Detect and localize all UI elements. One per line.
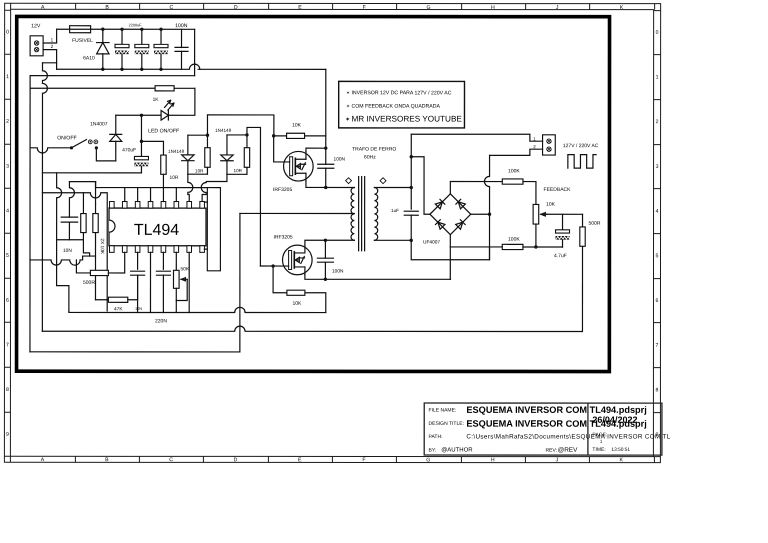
wire right loop of chip [207,188,220,271]
wire bridge top to 100K line [450,182,502,194]
svg-text:500R: 500R [83,280,95,286]
svg-text:10R: 10R [234,168,243,173]
svg-text:5: 5 [6,253,9,259]
svg-text:50K: 50K [180,266,189,272]
svg-text:K: K [620,5,624,11]
svg-text:8: 8 [6,387,9,393]
svg-text:0: 0 [656,30,659,36]
resistor R4 10R (pair 2) [234,135,250,174]
svg-text:A: A [41,5,45,11]
schematic border [17,16,610,371]
capacitor C2 2200uF [135,28,149,71]
wire pin7 drop [188,252,190,312]
svg-text:47K: 47K [114,306,123,312]
diode D3 1N4007 [90,115,122,161]
svg-text:@AUTHOR: @AUTHOR [441,448,473,454]
svg-text:DESIGN TITLE:: DESIGN TITLE: [429,421,464,427]
svg-text:F: F [363,5,366,11]
svg-text:IRF3205: IRF3205 [273,187,292,193]
wire 1K rail [30,87,195,89]
svg-text:3: 3 [6,164,9,170]
resistor R13 100K (bottom) [502,237,523,250]
op-amp U1 TL494 [109,208,206,246]
svg-text:60Hz: 60Hz [364,154,376,160]
wire pin12 riser [162,188,164,202]
wire branch to bridge left [411,157,430,215]
wire pin14 riser [137,188,139,202]
svg-text:B: B [105,5,109,11]
svg-text:C: C [169,5,173,11]
LED D2 LED ON/OFF [148,100,179,134]
wire Q1 drain link [306,146,328,151]
connector J1 12V [30,23,54,56]
wire feedback bottom line [450,245,562,248]
fuse FUSIVEL 6A10 [70,26,95,62]
wire pin15 riser [124,188,126,202]
page ruler frame [4,3,660,462]
svg-text:D: D [234,457,238,463]
svg-text:26/04/2022: 26/04/2022 [592,415,637,425]
svg-text:B: B [105,457,109,463]
wire center tap [240,212,354,214]
info box [339,81,465,128]
wire output pin1 line [411,134,542,141]
wire LED rail [116,114,161,117]
wire AC rail (output neutral) with hop [484,155,491,259]
svg-text:10K: 10K [292,301,302,307]
wire bottom rail with hop to MOSFET rail [57,64,326,69]
svg-text:100K: 100K [508,168,520,174]
wire output pin2 line [490,149,543,155]
svg-text:E: E [298,5,302,11]
diode D1 6A10 [97,28,109,71]
svg-text:G: G [426,457,430,463]
svg-text:H: H [491,457,495,463]
resistor R3 10R (pair 1) [195,135,210,174]
title block [424,403,662,455]
svg-text:K: K [620,457,624,463]
svg-text:1N4148: 1N4148 [215,128,232,133]
svg-text:C:\Users\MahRafaS2\Documents\E: C:\Users\MahRafaS2\Documents\ESQUEMA INV… [466,433,670,440]
wire pair1 bottom to pin10 with hop [188,174,193,201]
wire pin bus below chip [69,307,326,312]
wire comb bus feeder [95,182,97,188]
svg-text:3: 3 [656,164,659,170]
svg-text:1uF: 1uF [391,208,399,213]
svg-text:1N4148: 1N4148 [168,149,185,154]
svg-text:100N: 100N [334,156,346,162]
resistor R9 10K (Q1 gate) [274,122,326,138]
resistor R2 10R (LED) [161,155,179,188]
svg-text:1: 1 [6,74,9,80]
resistor R5 10K (a) [81,193,86,240]
wire left network top rail [69,181,95,183]
svg-text:1: 1 [656,74,659,80]
svg-text:PATH:: PATH: [429,434,443,440]
wire pair2 bottom link [227,173,247,175]
svg-text:7: 7 [656,343,659,349]
svg-text:✶: ✶ [346,104,350,109]
svg-text:6: 6 [656,298,659,304]
transformer TR1 TRAFO DE FERRO [346,146,397,250]
svg-text:10R: 10R [170,175,179,181]
wire Rb top riser with hop [95,182,97,204]
svg-text:100N: 100N [175,23,188,29]
wire secondary bottom to rail corner [411,240,489,259]
wire 10N/Ra node line y193 [42,193,107,311]
connector J2 output [533,135,599,155]
svg-text:12V: 12V [31,23,41,29]
wire pair1 top link [188,133,209,136]
capacitor C7 10N [131,252,145,312]
svg-text:F: F [362,457,365,463]
wire left vertical rail [29,76,31,352]
svg-text:2: 2 [51,44,54,49]
wire Q2 source rail [305,275,451,281]
capacitor C4 100N [175,23,188,69]
svg-text:FUSIVEL: FUSIVEL [72,38,93,44]
wire branch to 10R LED resistor [141,141,163,155]
wire pair2 top jog to gate B descender [247,127,261,266]
capacitor C3 2200uF [154,28,168,71]
TL494 bottom pin boxes [110,246,205,253]
wire pin13 riser [150,188,152,202]
ruler letters and digits [6,5,659,464]
svg-text:0: 0 [6,29,9,35]
svg-text:IRF3205: IRF3205 [274,234,293,240]
svg-text:4: 4 [656,209,659,215]
wire feed line y76 [30,75,194,77]
svg-text:H: H [491,5,495,11]
svg-text:100K: 100K [508,237,520,243]
svg-text:D: D [234,5,238,11]
TL494 top pin boxes [110,201,205,208]
wire pair1 top to gate rail [207,115,273,136]
wire 470uF return line [42,172,141,174]
wire bridge bottom down [449,235,451,280]
svg-text:10N: 10N [135,306,142,311]
capacitor C1 2200uF [115,23,142,71]
wire pin4 drop [149,252,151,312]
capacitor C5 470uF [122,147,149,173]
svg-text:2200uF: 2200uF [129,23,143,27]
capacitor C8 220N [155,252,170,324]
svg-text:E: E [298,457,302,463]
svg-text:ON/OFF: ON/OFF [57,135,77,141]
resistor R12 500R [580,214,601,331]
diode D4 1N4148 (pair 1) [168,135,194,174]
wire +12V rail drop to Q1 drain node [325,69,327,148]
svg-text:13:50:51: 13:50:51 [611,447,630,453]
wire Ra bottom link [57,173,90,311]
svg-text:6: 6 [6,298,9,304]
svg-text:UF4007: UF4007 [423,240,440,246]
wire P8 stub [204,248,207,250]
svg-text:470uF: 470uF [122,147,136,153]
svg-text:1: 1 [51,37,54,42]
wire Q2 drain to transformer bottom [305,239,354,246]
svg-text:100N: 100N [332,268,344,274]
wire pair2 bottom to P9 with hop [201,174,227,201]
wire pair2 top link [227,133,249,136]
wire bridge right to rail [471,213,490,215]
square wave symbol [568,155,596,169]
resistor R6 10K (b) 2X 10K [93,204,105,300]
resistor R1 1K [153,86,175,103]
potentiometer RV2 10K feedback [533,187,571,247]
wire pin11 riser [175,188,177,202]
wire LED node down to 470uF [140,115,143,156]
svg-text:4.7uF: 4.7uF [554,253,567,259]
wire Q1 source to transformer top [306,181,354,189]
svg-text:127V / 220V AC: 127V / 220V AC [563,143,599,149]
svg-text:2: 2 [6,119,9,125]
svg-text:4: 4 [6,208,9,214]
wire 12V pin1 to fuse rail [43,29,57,43]
svg-text:G: G [427,5,431,11]
svg-text:C: C [169,457,173,463]
wire P9 stub [204,201,207,203]
svg-text:A: A [41,457,45,463]
capacitor C6 10N [61,182,77,254]
svg-text:1N4007: 1N4007 [90,121,108,127]
capacitor C11 1uF [391,208,418,242]
svg-text:220N: 220N [155,318,167,324]
resistor R7 500R [76,252,124,286]
svg-text:BY:: BY: [429,448,437,454]
svg-text:TRAFO DE FERRO: TRAFO DE FERRO [352,146,396,152]
svg-text:J: J [556,5,559,11]
svg-text:J: J [556,457,559,463]
svg-text:TIME:: TIME: [592,447,605,453]
transistor Q1 IRF3205 (top) [273,151,313,193]
wire center tap vertical [239,213,241,351]
svg-text:10K: 10K [292,122,302,128]
capacitor C12 4.7uF [554,214,570,259]
diode D5 1N4148 (pair 2) [215,128,233,174]
svg-text:5: 5 [656,253,659,259]
svg-text:ESQUEMA INVERSOR COM TL494.pds: ESQUEMA INVERSOR COM TL494.pdsprj [466,405,646,415]
wire 1K to LED [168,88,195,115]
svg-text:FEEDBACK: FEEDBACK [544,187,572,193]
wire comb bus [96,187,208,189]
svg-text:MR INVERSORES YOUTUBE: MR INVERSORES YOUTUBE [351,114,462,123]
svg-text:COM FEEDBACK ONDA QUADRADA: COM FEEDBACK ONDA QUADRADA [351,104,440,110]
wire 12V pin2 to bottom rail [43,50,57,70]
capacitor C9 100N (top) [318,148,346,187]
svg-text:10N: 10N [63,248,72,254]
potentiometer RV1 50K [173,252,189,312]
wire bus2 (500R return) [42,326,581,331]
transistor Q2 IRF3205 (bottom) [273,234,312,274]
bridge rectifier BR1 UF4007 [423,194,471,246]
wire secondary bottom [374,239,411,241]
svg-text:✶: ✶ [346,90,350,95]
svg-text:2: 2 [656,119,659,125]
wire wiper line [547,213,583,215]
svg-text:INVERSOR 12V DC PARA 127V / 22: INVERSOR 12V DC PARA 127V / 220V AC [351,90,451,96]
svg-text:7: 7 [6,342,9,348]
svg-text:6A10: 6A10 [83,55,95,61]
svg-text:2X 10K: 2X 10K [99,238,105,255]
svg-text:9: 9 [6,432,9,438]
resistor R8 47K [95,275,137,312]
capacitor C10 100N (bottom) [317,240,344,279]
svg-text:REV:: REV: [546,448,557,454]
svg-text:LED ON/OFF: LED ON/OFF [148,128,179,134]
wire secondary rail vertical [410,134,413,209]
svg-text:10R: 10R [195,168,204,173]
wire lower left bus y260 with hops [30,256,96,265]
wire Q2 gate [260,264,288,267]
svg-text:FILE NAME:: FILE NAME: [429,408,457,414]
resistor R10 10K (Q2 gate) [273,266,326,313]
svg-text:1K: 1K [153,97,160,103]
wire +12V drop from top rail [194,29,196,75]
svg-text:✶: ✶ [345,116,350,123]
resistor R11 100K (top) [502,168,536,204]
wire top rail [57,28,195,30]
wire pair1 bottom link [188,173,208,175]
wire ground branch from pin2 [42,63,56,331]
svg-text:PAGE:: PAGE: [592,432,607,438]
svg-text:@REV: @REV [558,447,578,454]
svg-text:TL494: TL494 [134,222,179,239]
wire secondary top [374,186,411,188]
svg-text:10K: 10K [546,202,556,208]
wire Q1 gate [272,134,290,162]
switch SW1 ON/OFF [30,135,116,161]
svg-text:500R: 500R [589,221,601,227]
svg-text:8: 8 [655,387,658,393]
wire bus3 (center tap feed) [30,351,240,353]
